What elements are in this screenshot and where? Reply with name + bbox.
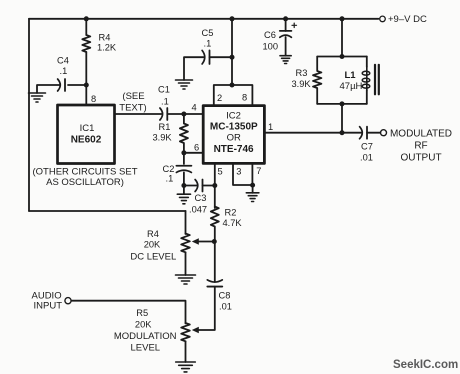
terminal +9V DC	[380, 16, 386, 22]
ground (C6)	[280, 56, 291, 64]
wire IC1 output to C1	[115, 113, 162, 115]
svg-text:C8: C8	[219, 291, 231, 301]
svg-text:OUTPUT: OUTPUT	[400, 153, 441, 164]
svg-text:C4: C4	[57, 56, 69, 66]
resistor R4 pot 20K	[181, 234, 190, 253]
pin 6 label IC2	[194, 143, 199, 153]
svg-text:TEXT): TEXT)	[119, 102, 146, 113]
ground (IC2 pins 3,7)	[246, 185, 259, 201]
svg-text:MODULATED: MODULATED	[390, 129, 452, 140]
svg-text:6: 6	[194, 143, 199, 153]
node tank bottom junction	[340, 101, 345, 106]
label OR	[227, 132, 241, 143]
svg-text:C5: C5	[202, 28, 214, 38]
wire C2 top lead	[183, 153, 185, 164]
svg-text:.1: .1	[204, 39, 212, 49]
svg-text:2: 2	[217, 93, 222, 103]
wire C4 left lead to ground	[37, 85, 60, 93]
op-amp IC2 MC-1350P box	[203, 106, 264, 164]
svg-text:C3: C3	[195, 193, 207, 203]
node top rail / R4 junction	[84, 16, 89, 21]
svg-text:20K: 20K	[144, 239, 161, 249]
wire pin 6 to IC2	[184, 152, 204, 154]
wire R4 pot to ground	[185, 252, 187, 275]
capacitor C1 .1	[160, 108, 167, 120]
svg-text:RF: RF	[414, 141, 427, 152]
label C7 value	[360, 141, 373, 162]
svg-text:L1: L1	[345, 70, 357, 81]
wire tank top bar	[317, 56, 367, 58]
svg-text:47µH: 47µH	[340, 81, 363, 92]
wire pin2/8 bracket	[214, 85, 253, 106]
wire R4 top stub	[85, 19, 87, 35]
svg-text:R4: R4	[147, 229, 159, 239]
svg-text:C1: C1	[158, 85, 170, 95]
node top rail / L1 branch	[340, 16, 345, 21]
label C6 plus	[292, 23, 297, 27]
svg-text:1.2K: 1.2K	[97, 42, 117, 52]
svg-text:.1: .1	[161, 97, 169, 107]
wiper arrow R4	[192, 238, 199, 244]
label (SEE TEXT)	[119, 91, 146, 113]
label C6 value	[263, 30, 279, 51]
wire R2 junction to C8	[214, 242, 216, 283]
svg-text:8: 8	[91, 94, 96, 104]
node R4 / C4 / IC1 pin8 junction	[84, 83, 89, 88]
capacitor C2 .1	[176, 166, 191, 173]
label SeekIC.com watermark	[393, 359, 458, 371]
label R4 20K DC LEVEL	[130, 229, 176, 263]
svg-text:SeekIC.com: SeekIC.com	[393, 359, 458, 371]
wire IC2 pin 1 to C7	[264, 132, 361, 134]
svg-text:C7: C7	[361, 141, 373, 151]
wire +9V top rail	[29, 18, 379, 20]
ground (C5)	[176, 80, 193, 89]
svg-text:INPUT: INPUT	[34, 300, 63, 311]
pin 5 label IC2	[218, 166, 223, 176]
wire IC2 top supply from rail	[231, 19, 233, 85]
pin 1 label IC2	[268, 122, 273, 132]
wire C3 left lead	[184, 185, 198, 187]
label other circuits note	[32, 167, 137, 189]
svg-text:3.9K: 3.9K	[153, 133, 173, 143]
pin 7 label IC2	[256, 166, 261, 176]
node R1 / C2 / pin6 junction	[181, 150, 186, 155]
label C4 value	[57, 56, 69, 77]
wire C5 left lead to ground	[184, 57, 204, 80]
svg-text:NE602: NE602	[71, 135, 102, 146]
svg-text:4.7K: 4.7K	[223, 218, 243, 228]
label audio input	[32, 290, 63, 311]
wire left rail vertical	[28, 19, 30, 211]
pin 8 label IC1	[91, 94, 96, 104]
svg-text:.01: .01	[360, 152, 373, 162]
label NTE-746	[214, 144, 254, 155]
wire C7 to output terminal	[367, 132, 380, 134]
node pin3/pin7 junction	[250, 183, 255, 188]
wire IC2 pin 3 down	[233, 163, 252, 185]
capacitor C6 100 (electrolytic)	[280, 31, 292, 37]
pin 3 label IC2	[236, 166, 241, 176]
svg-text:(SEE: (SEE	[122, 91, 144, 102]
wire audio input to R5 top	[71, 301, 185, 324]
resistor R4 1.2K	[82, 35, 90, 52]
svg-text:MODULATION: MODULATION	[114, 331, 177, 342]
ground (R4 pot)	[176, 275, 196, 284]
node top rail / IC2 supply	[230, 16, 235, 21]
wire C2 bottom lead	[183, 172, 185, 194]
wire C6 top lead	[285, 19, 287, 31]
label L1 47uH	[340, 70, 363, 92]
capacitor C3 .047	[195, 180, 202, 192]
wire tank bottom to output node	[341, 104, 343, 133]
pin 4 label IC2	[192, 103, 197, 113]
node C2 / C3 junction	[181, 183, 186, 188]
svg-text:R3: R3	[296, 68, 308, 78]
wire R4 bottom to IC1 pin 8	[85, 52, 87, 105]
wire R5 pot to ground	[185, 341, 187, 362]
ground (R5 pot)	[176, 362, 196, 372]
label R5 20K MODULATION LEVEL	[114, 308, 177, 353]
label IC2	[226, 111, 241, 122]
svg-text:3: 3	[236, 166, 241, 176]
wire L1 bottom stub	[366, 90, 368, 104]
node R2 / wiper / C8 junction	[212, 239, 217, 244]
inductor L1 47uH	[362, 67, 370, 91]
svg-text:IC1: IC1	[80, 123, 95, 134]
wire L1 top stub	[366, 57, 368, 68]
wire C1 to IC2 pin 4	[167, 113, 203, 115]
resistor R2 4.7K	[211, 207, 219, 242]
terminal RF output	[381, 130, 387, 136]
wire left rail drop to R4 pot top	[185, 211, 187, 234]
svg-text:R4: R4	[99, 33, 111, 43]
svg-text:.1: .1	[166, 174, 174, 184]
node pin5 / C3 / R2 junction	[212, 183, 217, 188]
svg-text:20K: 20K	[135, 319, 152, 329]
transformer core	[375, 65, 379, 95]
svg-text:3.9K: 3.9K	[292, 79, 312, 89]
svg-text:R5: R5	[136, 308, 148, 318]
svg-text:IC2: IC2	[226, 111, 241, 122]
wire C8 to R5 wiper	[199, 287, 215, 330]
label NE602	[71, 135, 102, 146]
label C5 value	[202, 28, 214, 49]
svg-text:7: 7	[256, 166, 261, 176]
svg-text:100: 100	[263, 41, 279, 51]
capacitor C4 .1	[58, 79, 65, 91]
pin 2 label IC2	[217, 93, 222, 103]
resistor R5 pot 20K	[181, 323, 190, 341]
label R1 3.9K	[153, 122, 173, 143]
svg-text:AS OSCILLATOR): AS OSCILLATOR)	[46, 177, 124, 188]
capacitor C7 .01	[360, 127, 367, 139]
pin 8 label IC2	[242, 93, 247, 103]
label R4 1.2K	[97, 33, 117, 53]
node tank top junction	[340, 54, 345, 59]
svg-text:.01: .01	[219, 302, 232, 312]
label C2 value	[163, 164, 175, 184]
svg-text:+9–V DC: +9–V DC	[388, 14, 427, 25]
capacitor C8 .01	[207, 280, 222, 287]
label C8 value	[219, 291, 232, 312]
label modulated rf output	[390, 129, 452, 164]
wire R4 wiper	[198, 241, 214, 243]
ground (C2)	[177, 194, 190, 204]
capacitor C5 .1	[202, 50, 209, 64]
svg-text:.1: .1	[60, 66, 68, 76]
op-amp IC1 NE602 box	[58, 105, 115, 164]
wire C3 right lead	[203, 185, 215, 187]
wire C4 right lead	[68, 84, 86, 86]
svg-text:DC LEVEL: DC LEVEL	[130, 251, 176, 262]
node bracket junction	[230, 83, 235, 88]
wire tank bottom bar	[317, 103, 367, 105]
svg-text:R1: R1	[159, 122, 171, 132]
label +9-V DC	[388, 14, 427, 25]
resistor R1 3.9K	[180, 114, 188, 153]
svg-text:C2: C2	[163, 164, 175, 174]
label IC1	[80, 123, 95, 134]
svg-text:(OTHER CIRCUITS SET: (OTHER CIRCUITS SET	[32, 167, 137, 178]
resistor R3 3.9K	[313, 57, 321, 104]
label MC-1350P	[210, 122, 258, 133]
node C5 junction	[230, 55, 235, 60]
svg-text:C6: C6	[264, 30, 276, 40]
ground (C4)	[29, 93, 46, 102]
node top rail / C6	[283, 16, 288, 21]
svg-text:8: 8	[242, 93, 247, 103]
wire IC2 pin 5 down	[214, 163, 216, 208]
wire C6 bottom lead	[285, 37, 287, 56]
wire left rail horizontal to R4 pot	[29, 210, 186, 212]
svg-text:NTE-746: NTE-746	[214, 144, 254, 155]
node output junction	[340, 130, 345, 135]
label R3 3.9K	[292, 68, 312, 89]
label C3 value	[189, 193, 207, 214]
label C1 value	[158, 85, 170, 107]
wire rail to tank top	[341, 19, 343, 57]
label R2 4.7K	[223, 208, 243, 229]
wiper arrow R5	[192, 327, 199, 333]
svg-text:OR: OR	[227, 132, 241, 143]
terminal audio input	[65, 298, 71, 304]
svg-text:R2: R2	[225, 208, 237, 218]
wire C5 right lead	[210, 56, 233, 58]
svg-text:MC-1350P: MC-1350P	[210, 122, 258, 133]
node C1 / R1 junction	[181, 112, 186, 117]
svg-text:1: 1	[268, 122, 273, 132]
wire IC2 pin 7 down	[251, 163, 253, 185]
svg-text:.047: .047	[189, 204, 207, 214]
svg-text:4: 4	[192, 103, 197, 113]
svg-text:5: 5	[218, 166, 223, 176]
svg-text:LEVEL: LEVEL	[131, 342, 161, 353]
